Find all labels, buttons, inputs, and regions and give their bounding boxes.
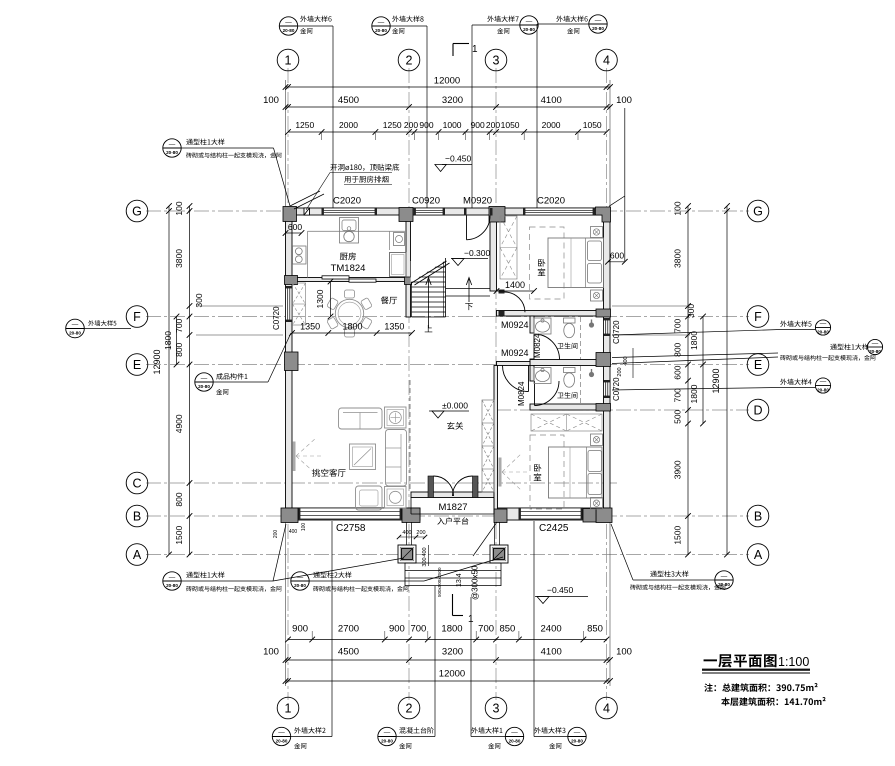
axis line 1 bbox=[287, 68, 289, 700]
svg-text:3: 3 bbox=[493, 702, 500, 716]
window C2020 bedroom bbox=[523, 208, 595, 215]
svg-text:A: A bbox=[133, 548, 142, 562]
bedroom lower dashed ceiling bbox=[530, 435, 564, 509]
wall bottom bedroom bbox=[497, 508, 611, 520]
axis bubble 2 top bbox=[398, 49, 420, 71]
svg-text:400: 400 bbox=[402, 530, 411, 536]
dim 600 bedroom right bbox=[609, 196, 625, 206]
bedroom lower view cone bbox=[502, 453, 522, 472]
svg-text:12900: 12900 bbox=[711, 368, 721, 393]
svg-text:1800: 1800 bbox=[163, 331, 173, 350]
svg-text:300: 300 bbox=[422, 557, 428, 566]
svg-text:—: — bbox=[820, 320, 827, 327]
axis line 2 bbox=[408, 68, 410, 700]
living armchair bbox=[356, 486, 383, 510]
label entry platform bbox=[437, 517, 468, 524]
svg-text:100: 100 bbox=[263, 95, 279, 106]
svg-text:100: 100 bbox=[616, 647, 632, 658]
kitchen counter bbox=[308, 230, 407, 232]
axis bubble G right bbox=[747, 200, 769, 222]
dim col left 1800 bbox=[176, 317, 178, 365]
svg-text:400: 400 bbox=[623, 356, 629, 365]
callout exterior wall detail 4 right bbox=[780, 379, 811, 385]
stair treads bbox=[412, 261, 446, 263]
svg-text:4: 4 bbox=[603, 54, 610, 68]
svg-text:500: 500 bbox=[673, 409, 683, 423]
axis bubble 1 bottom bbox=[277, 697, 299, 719]
svg-text:@300x50: @300x50 bbox=[471, 565, 480, 600]
porch vertical dim bbox=[428, 545, 430, 566]
axis bubble E right bbox=[747, 354, 769, 376]
bathroom upper shower dashed bbox=[580, 317, 582, 359]
svg-text:E: E bbox=[754, 358, 762, 372]
extension line left edge top bbox=[285, 80, 287, 208]
dim 1300 dining bbox=[330, 282, 332, 317]
wall bedroom-bath divider bbox=[497, 311, 604, 317]
window C2020 kitchen bbox=[322, 208, 378, 215]
svg-text:2700: 2700 bbox=[338, 624, 359, 635]
svg-text:B: B bbox=[754, 510, 762, 524]
title note floor area bbox=[721, 697, 825, 706]
extension stubs top row3 bbox=[321, 132, 323, 140]
window C0720 right upper bbox=[604, 318, 611, 336]
svg-text:700: 700 bbox=[410, 624, 426, 635]
svg-text:12900: 12900 bbox=[152, 349, 162, 374]
dim row top subdims bbox=[288, 131, 607, 133]
callout exterior wall detail 7 top bbox=[487, 16, 518, 22]
living sofa L bbox=[386, 430, 407, 487]
axis line E bbox=[146, 364, 749, 366]
svg-text:1800: 1800 bbox=[689, 331, 699, 350]
bedroom upper bed bbox=[548, 238, 604, 288]
svg-text:1800: 1800 bbox=[342, 322, 362, 332]
svg-text:3900: 3900 bbox=[673, 460, 683, 479]
column right bath top bbox=[596, 309, 611, 317]
svg-text:C0720: C0720 bbox=[612, 377, 621, 401]
svg-text:20-80: 20-80 bbox=[69, 331, 81, 336]
stair down arrow bbox=[468, 279, 470, 302]
wall right bbox=[604, 208, 611, 520]
dim col right 1800s bbox=[702, 317, 704, 424]
axis bubble 2 bottom bbox=[398, 697, 420, 719]
svg-text:—: — bbox=[820, 378, 827, 385]
door M0824 lower bath bbox=[534, 381, 536, 406]
callout exterior wall detail 2 bottom bbox=[272, 727, 290, 745]
svg-text:20-80: 20-80 bbox=[375, 28, 387, 33]
axis line D bbox=[496, 409, 749, 411]
wall bottom living bbox=[286, 508, 421, 520]
svg-text:3800: 3800 bbox=[174, 249, 184, 268]
svg-text:20-80: 20-80 bbox=[294, 583, 306, 588]
kitchen stove bbox=[293, 246, 307, 264]
callout column detail 1 top-left bbox=[163, 139, 181, 157]
dim row bottom 100 4500 3200 4100 100 bbox=[286, 659, 611, 661]
dim small right 400 200 bbox=[632, 348, 634, 378]
axis line B bbox=[146, 515, 749, 517]
svg-text:900: 900 bbox=[471, 120, 485, 130]
door M0924 lower bedroom bbox=[528, 366, 530, 392]
svg-text:4100: 4100 bbox=[541, 647, 562, 658]
svg-text:4100: 4100 bbox=[541, 95, 562, 106]
svg-text:100: 100 bbox=[174, 201, 184, 215]
callout precast element 1 left bbox=[195, 373, 213, 391]
column right E bbox=[596, 353, 611, 367]
svg-text:20-80: 20-80 bbox=[571, 739, 583, 744]
svg-text:—: — bbox=[169, 574, 176, 581]
bedroom lower tv bbox=[499, 458, 502, 487]
dim col left 12900 bbox=[168, 206, 170, 555]
svg-text:700: 700 bbox=[174, 318, 184, 332]
section mark top bbox=[452, 44, 454, 57]
svg-text:1800: 1800 bbox=[689, 384, 699, 403]
svg-text:4: 4 bbox=[603, 702, 610, 716]
svg-text:—: — bbox=[721, 573, 728, 580]
svg-text:—: — bbox=[278, 729, 285, 736]
column grid1-G corner bbox=[283, 207, 297, 222]
callout exterior wall detail 3 bottom bbox=[534, 727, 565, 733]
svg-text:C2020: C2020 bbox=[537, 196, 565, 207]
svg-text:—: — bbox=[378, 19, 385, 26]
axis bubble 1 top bbox=[277, 49, 299, 71]
svg-text:2: 2 bbox=[406, 54, 413, 68]
living sofa top bbox=[339, 408, 383, 429]
svg-text:100: 100 bbox=[263, 647, 279, 658]
window C0920 bbox=[414, 208, 446, 215]
label dining bbox=[381, 296, 397, 304]
svg-text:TM1824: TM1824 bbox=[331, 263, 366, 274]
svg-text:−0.300: −0.300 bbox=[464, 248, 491, 258]
callout column detail 3 bottom-right bbox=[715, 571, 733, 589]
svg-text:C2425: C2425 bbox=[539, 523, 569, 534]
svg-text:—: — bbox=[201, 375, 208, 382]
column left-B corner bbox=[281, 508, 298, 523]
svg-text:D: D bbox=[753, 404, 762, 418]
axis line 4 bbox=[606, 68, 608, 700]
entry closet strip bbox=[482, 400, 494, 492]
svg-text:2400: 2400 bbox=[541, 624, 562, 635]
svg-text:900: 900 bbox=[419, 120, 433, 130]
dining closet xbox bbox=[293, 283, 306, 325]
svg-text:2000: 2000 bbox=[542, 120, 561, 130]
column grid2-G bbox=[399, 208, 413, 222]
axis line A bbox=[146, 554, 749, 556]
svg-text:C: C bbox=[132, 477, 141, 491]
svg-text:600: 600 bbox=[288, 222, 302, 232]
extension stubs bottom row1 bbox=[311, 631, 313, 640]
svg-text:200: 200 bbox=[273, 530, 279, 539]
svg-text:20-80: 20-80 bbox=[166, 583, 178, 588]
entry platform edge bbox=[410, 498, 412, 515]
svg-text:700: 700 bbox=[673, 318, 683, 332]
bedroom lower wardrobe xbox bbox=[531, 414, 602, 431]
note kitchen vent bbox=[330, 164, 399, 171]
label bedroom upper bbox=[538, 259, 545, 267]
svg-text:C2758: C2758 bbox=[336, 523, 366, 534]
column living window right bbox=[402, 508, 420, 523]
section mark bottom bbox=[452, 594, 454, 616]
axis line C bbox=[146, 482, 620, 484]
svg-text:200: 200 bbox=[404, 120, 418, 130]
column right D bbox=[596, 404, 611, 412]
svg-text:A: A bbox=[754, 548, 763, 562]
wall bath D bottom bbox=[530, 404, 604, 410]
left stub 335 bbox=[196, 334, 283, 336]
column bedroom window left bbox=[494, 509, 507, 523]
svg-text:20-80: 20-80 bbox=[817, 330, 829, 335]
callout exterior wall detail 6 top-left bbox=[279, 17, 297, 35]
living tv bbox=[292, 442, 295, 472]
svg-text:—: — bbox=[285, 19, 292, 26]
door M0920 jambs bbox=[464, 208, 467, 216]
callout column detail 2 bottom bbox=[291, 572, 309, 590]
dim row top 12000 bbox=[286, 86, 611, 88]
dining table round bbox=[335, 299, 363, 327]
svg-text:1000: 1000 bbox=[443, 120, 462, 130]
svg-text:700: 700 bbox=[478, 624, 494, 635]
axis line G bbox=[146, 210, 749, 212]
svg-text:100: 100 bbox=[616, 95, 632, 106]
wall lower bedroom left bbox=[494, 366, 498, 513]
callout exterior wall detail 6 top-right bbox=[556, 16, 587, 22]
sliding door TM1824 bbox=[322, 276, 349, 279]
axis bubble A left bbox=[126, 544, 148, 566]
window C0720 left wall bbox=[286, 286, 293, 322]
svg-text:500x500x2500: 500x500x2500 bbox=[437, 567, 442, 597]
axis bubble 3 bottom bbox=[485, 697, 507, 719]
title first floor plan bbox=[704, 654, 777, 667]
svg-text:−0.450: −0.450 bbox=[445, 154, 472, 164]
svg-text:200: 200 bbox=[416, 530, 425, 536]
dim col right details bbox=[687, 206, 689, 555]
wall hall-bath vertical upper bbox=[530, 316, 534, 333]
svg-text:12000: 12000 bbox=[434, 76, 460, 87]
stair up arrow bbox=[428, 279, 430, 328]
bedroom upper dashed ceiling bbox=[530, 227, 565, 299]
bedroom upper wardrobe xbox bbox=[500, 216, 517, 279]
label bathroom upper bbox=[557, 343, 577, 349]
axis bubble 4 bottom bbox=[596, 697, 618, 719]
svg-text:800: 800 bbox=[673, 342, 683, 356]
kitchen fridge bbox=[390, 253, 407, 277]
dim row bottom 12000 bbox=[286, 680, 611, 682]
dim 1400 bedroom door bbox=[497, 290, 535, 292]
svg-text:200: 200 bbox=[617, 367, 623, 376]
callout column detail 1 right bbox=[830, 344, 868, 350]
column stair wall end bbox=[405, 277, 412, 285]
svg-text:600: 600 bbox=[673, 365, 683, 379]
label entry hall bbox=[447, 422, 463, 430]
svg-text:20-80: 20-80 bbox=[592, 26, 604, 31]
bathroom lower shower dashed bbox=[580, 366, 582, 404]
svg-text:M0920: M0920 bbox=[463, 196, 492, 207]
label living bbox=[312, 469, 345, 477]
svg-text:200: 200 bbox=[486, 120, 500, 130]
column bedroom window right bbox=[583, 509, 596, 523]
svg-text:850: 850 bbox=[499, 624, 515, 635]
extension line right edge top bbox=[609, 80, 611, 208]
bathroom lower fixtures bbox=[534, 368, 551, 384]
door M1827 entry double bbox=[428, 476, 434, 498]
callout column detail 1 bottom-left bbox=[163, 572, 181, 590]
svg-text:3800: 3800 bbox=[673, 249, 683, 268]
svg-text:—: — bbox=[511, 729, 518, 736]
label kitchen bbox=[340, 252, 356, 260]
wall hall bottom at E bbox=[497, 362, 531, 366]
axis bubble B left bbox=[126, 505, 148, 527]
svg-text:2: 2 bbox=[406, 702, 413, 716]
svg-text:1350: 1350 bbox=[300, 322, 320, 332]
svg-text:20-80: 20-80 bbox=[381, 739, 393, 744]
svg-text:20-80: 20-80 bbox=[198, 384, 210, 389]
extension line left edge bottom bbox=[285, 520, 287, 686]
svg-text:1500: 1500 bbox=[673, 525, 683, 544]
svg-text:—: — bbox=[574, 729, 581, 736]
column right-B corner bbox=[596, 508, 612, 523]
svg-text:1: 1 bbox=[472, 44, 478, 55]
axis bubble 4 top bbox=[596, 49, 618, 71]
stair break line bbox=[412, 261, 447, 283]
kitchen appliance bbox=[394, 233, 405, 246]
svg-text:—: — bbox=[384, 729, 391, 736]
dim col left details bbox=[189, 206, 191, 555]
svg-text:—: — bbox=[526, 18, 533, 25]
svg-text:20-80: 20-80 bbox=[869, 349, 881, 354]
kitchen sink bbox=[340, 218, 359, 244]
dim row top 100 4500 3200 4100 100 bbox=[286, 106, 611, 108]
svg-text:20-80: 20-80 bbox=[817, 388, 829, 393]
axis bubble B right bbox=[747, 505, 769, 527]
label bedroom lower bbox=[534, 464, 541, 472]
svg-text:1250: 1250 bbox=[383, 120, 402, 130]
svg-text:400: 400 bbox=[289, 529, 298, 535]
bedroom upper nightstand top bbox=[591, 227, 603, 238]
svg-text:1250: 1250 bbox=[295, 120, 314, 130]
svg-text:900: 900 bbox=[292, 624, 308, 635]
svg-text:3: 3 bbox=[493, 54, 500, 68]
leader C2425 left column bbox=[473, 522, 497, 556]
svg-text:100: 100 bbox=[673, 201, 683, 215]
svg-text:20-80: 20-80 bbox=[718, 582, 730, 587]
dim row bottom subdims bbox=[288, 639, 607, 641]
svg-text:—: — bbox=[72, 321, 79, 328]
svg-text:600: 600 bbox=[610, 251, 624, 261]
axis bubble C left bbox=[126, 472, 148, 494]
svg-text:E: E bbox=[133, 358, 141, 372]
svg-text:—: — bbox=[872, 340, 879, 347]
svg-text:400: 400 bbox=[422, 547, 428, 556]
right stub 306 bbox=[612, 305, 690, 307]
callout exterior wall detail 5 left bbox=[66, 319, 85, 338]
left stub 306 bbox=[196, 305, 283, 307]
wall kitchen-dining bbox=[292, 278, 411, 282]
column left kitchen-dining bbox=[285, 276, 298, 285]
svg-text:20-80: 20-80 bbox=[166, 150, 178, 155]
svg-text:20-80: 20-80 bbox=[276, 739, 288, 744]
bedroom lower nightstand bottom bbox=[591, 498, 603, 510]
column left E bbox=[285, 352, 299, 371]
porch column left bbox=[398, 545, 416, 563]
svg-text:1: 1 bbox=[285, 702, 292, 716]
svg-text:800: 800 bbox=[174, 342, 184, 356]
window C2425 bedroom lower bbox=[519, 508, 584, 519]
dim 600 kitchen bbox=[286, 232, 302, 234]
stair rail lines to wall bbox=[446, 288, 491, 290]
svg-text:C2020: C2020 bbox=[333, 196, 361, 207]
svg-text:800: 800 bbox=[174, 492, 184, 506]
axis bubble F left bbox=[126, 306, 148, 328]
wall hall-bath vertical mid bbox=[530, 359, 534, 381]
svg-text:700: 700 bbox=[673, 388, 683, 402]
svg-text:—: — bbox=[169, 141, 176, 148]
svg-text:F: F bbox=[133, 310, 141, 324]
svg-text:300: 300 bbox=[194, 293, 204, 307]
svg-text:12000: 12000 bbox=[439, 669, 465, 680]
svg-text:1: 1 bbox=[285, 54, 292, 68]
window C2758 living bbox=[298, 508, 402, 519]
living side table lower bbox=[385, 487, 407, 509]
svg-text:C0720: C0720 bbox=[272, 306, 281, 330]
label bathroom lower bbox=[557, 392, 577, 398]
wall entry recess bbox=[411, 492, 494, 498]
svg-text:100: 100 bbox=[301, 523, 307, 532]
svg-text:—: — bbox=[595, 17, 602, 24]
living side table upper bbox=[385, 407, 407, 428]
svg-text:1500: 1500 bbox=[174, 525, 184, 544]
svg-text:4900: 4900 bbox=[174, 414, 184, 433]
porch column stems bbox=[406, 522, 408, 545]
living coffee table bbox=[350, 444, 376, 470]
svg-text:900: 900 bbox=[389, 624, 405, 635]
axis bubble D right bbox=[747, 399, 769, 421]
callout exterior wall detail 5 right bbox=[780, 321, 811, 327]
axis line 3 bbox=[495, 68, 497, 700]
svg-text:20-80: 20-80 bbox=[509, 739, 521, 744]
column grid4-G corner bbox=[596, 207, 611, 222]
svg-text:1050: 1050 bbox=[501, 120, 520, 130]
porch step dim 400 200 bbox=[399, 536, 425, 538]
svg-text:13.4: 13.4 bbox=[456, 573, 463, 587]
wall top bbox=[286, 208, 611, 215]
dim 1350 1800 1350 dining bbox=[292, 332, 412, 334]
callout exterior wall detail 1 bottom bbox=[471, 727, 502, 733]
svg-text:±0.000: ±0.000 bbox=[442, 401, 468, 411]
bathroom upper fixtures bbox=[534, 318, 551, 334]
axis line F bbox=[146, 316, 749, 318]
title note total area bbox=[704, 683, 817, 692]
svg-text:4500: 4500 bbox=[338, 647, 359, 658]
door M0924 upper bedroom bbox=[499, 290, 505, 294]
bedroom lower bed bbox=[549, 447, 603, 498]
svg-text:3200: 3200 bbox=[442, 647, 463, 658]
door M0920 bbox=[467, 216, 491, 240]
svg-text:20-80: 20-80 bbox=[523, 27, 535, 32]
living tv view cone bbox=[296, 438, 316, 456]
svg-text:1800: 1800 bbox=[441, 624, 462, 635]
flue hole kitchen vent bbox=[304, 208, 310, 215]
window C0720 right lower bbox=[604, 380, 611, 398]
right stub 335 bbox=[612, 334, 690, 336]
svg-text:1400: 1400 bbox=[505, 280, 525, 290]
svg-text:M1827: M1827 bbox=[438, 502, 467, 513]
porch steps bbox=[404, 563, 406, 586]
wall left bbox=[286, 208, 293, 520]
svg-text:B: B bbox=[133, 510, 141, 524]
porch column right bbox=[490, 545, 508, 563]
callout concrete steps bottom bbox=[378, 727, 396, 745]
svg-text:4500: 4500 bbox=[338, 95, 359, 106]
svg-text:20-80: 20-80 bbox=[283, 28, 295, 33]
svg-text:1300: 1300 bbox=[315, 289, 325, 308]
